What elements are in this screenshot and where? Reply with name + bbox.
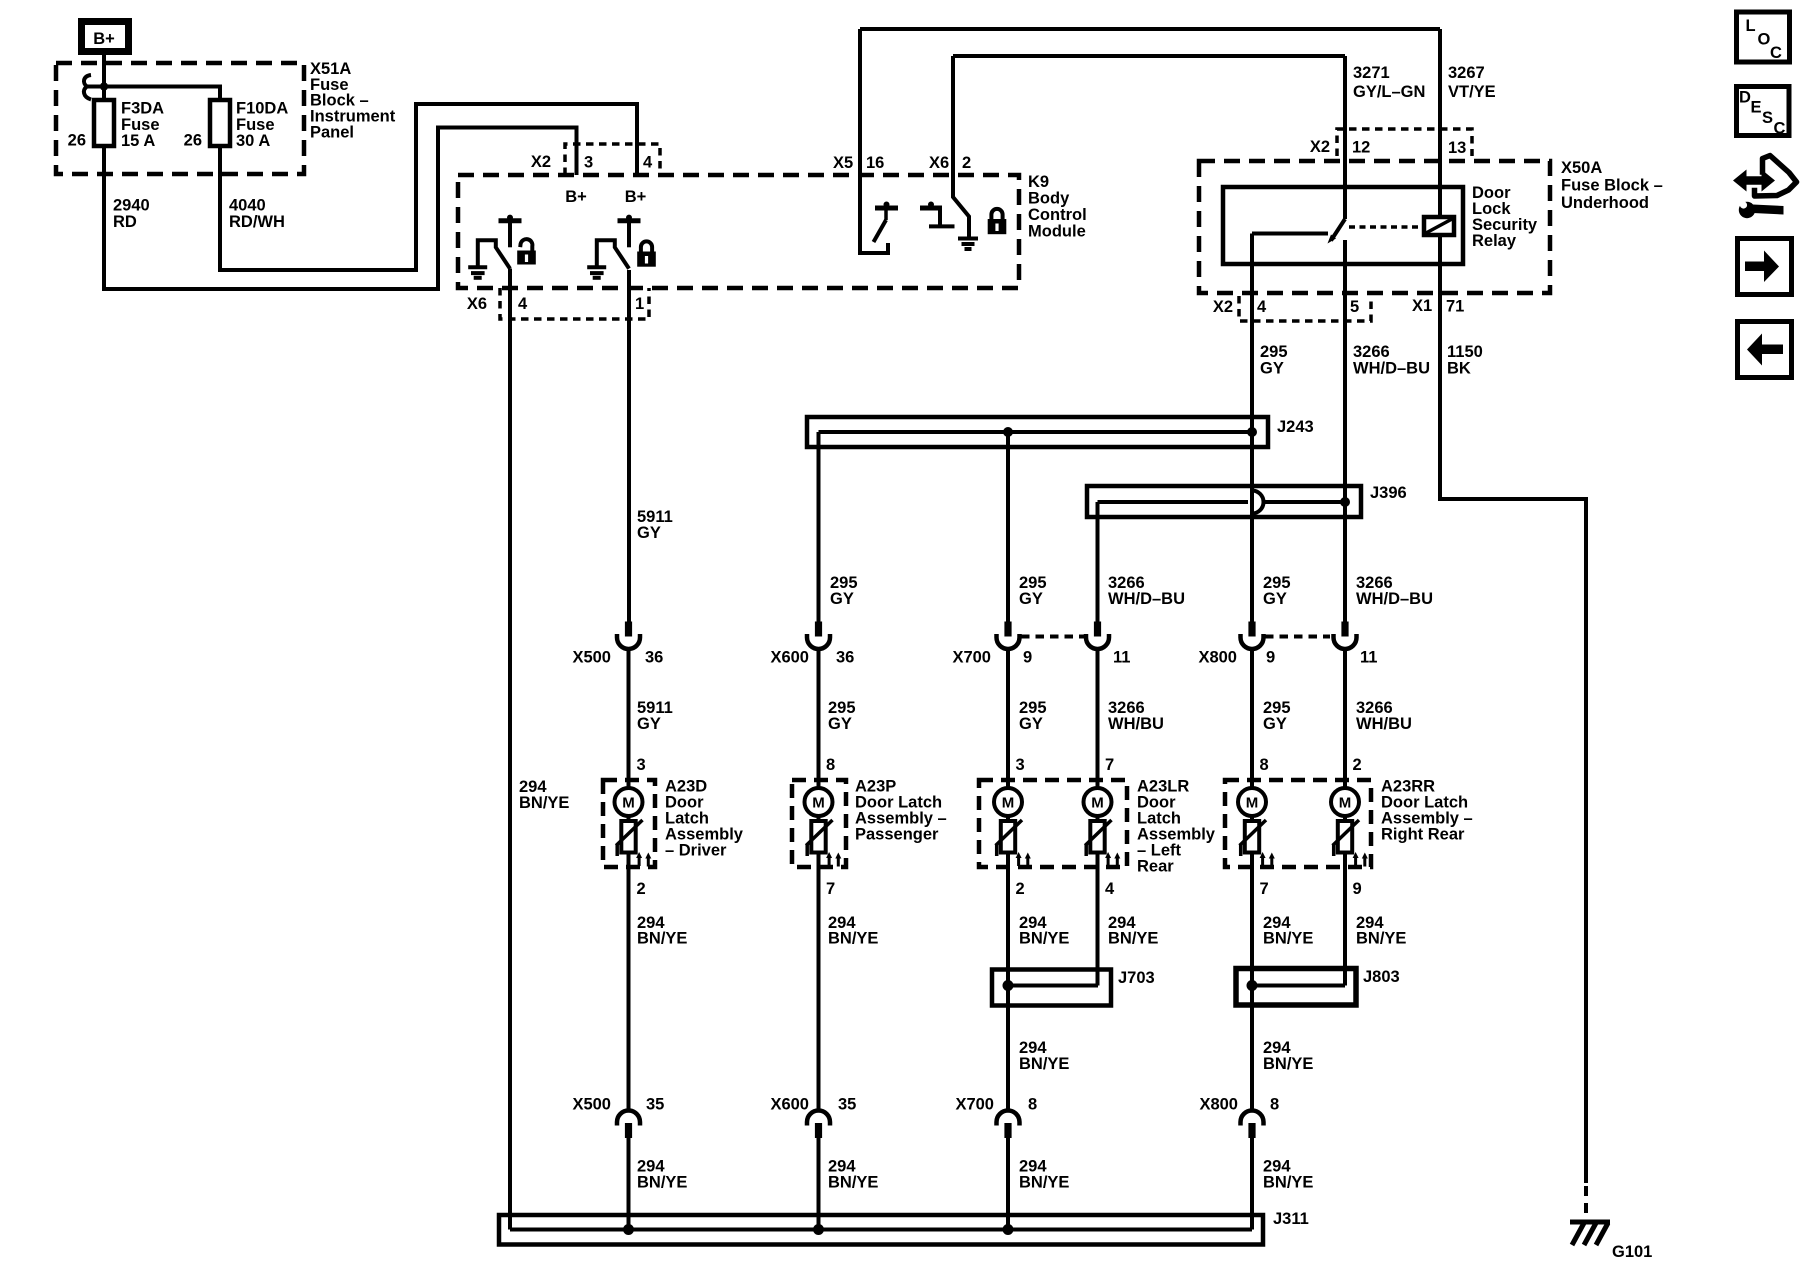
svg-text:Panel: Panel (310, 124, 354, 142)
svg-text:2940: 2940 (113, 197, 150, 215)
svg-text:F3DA: F3DA (121, 100, 164, 118)
svg-text:3: 3 (584, 154, 593, 172)
svg-text:BN/YE: BN/YE (1108, 930, 1158, 948)
svg-text:2: 2 (1353, 756, 1362, 774)
svg-text:8: 8 (1270, 1096, 1279, 1114)
svg-text:F10DA: F10DA (236, 100, 288, 118)
svg-text:– Driver: – Driver (665, 842, 727, 860)
svg-text:X500: X500 (572, 1096, 611, 1114)
svg-text:J311: J311 (1273, 1210, 1309, 1228)
svg-text:WH/D–BU: WH/D–BU (1356, 590, 1433, 608)
svg-text:C: C (1770, 44, 1782, 62)
svg-text:RD/WH: RD/WH (229, 213, 285, 231)
svg-text:1150: 1150 (1447, 343, 1483, 361)
svg-text:12: 12 (1352, 139, 1370, 157)
svg-text:BN/YE: BN/YE (519, 794, 569, 812)
svg-text:E: E (1751, 99, 1762, 117)
svg-text:X800: X800 (1198, 649, 1237, 667)
svg-text:RD: RD (113, 213, 137, 231)
svg-text:36: 36 (645, 649, 663, 667)
svg-text:295: 295 (1260, 343, 1288, 361)
svg-text:J243: J243 (1277, 418, 1314, 436)
svg-text:VT/YE: VT/YE (1448, 83, 1496, 101)
svg-text:X1: X1 (1412, 297, 1432, 315)
svg-text:X700: X700 (952, 649, 991, 667)
svg-text:BN/YE: BN/YE (1019, 1174, 1069, 1192)
svg-text:B+: B+ (93, 30, 115, 48)
svg-text:GY: GY (1263, 590, 1287, 608)
svg-text:Underhood: Underhood (1561, 194, 1649, 212)
svg-text:X600: X600 (770, 1096, 809, 1114)
svg-text:GY: GY (637, 715, 661, 733)
svg-text:7: 7 (1260, 880, 1269, 898)
svg-text:X2: X2 (1213, 298, 1233, 316)
svg-text:8: 8 (1260, 756, 1269, 774)
svg-text:WH/BU: WH/BU (1108, 715, 1164, 733)
svg-text:36: 36 (836, 649, 854, 667)
svg-text:BN/YE: BN/YE (1019, 930, 1069, 948)
svg-text:1: 1 (635, 295, 644, 313)
svg-text:G101: G101 (1612, 1243, 1652, 1261)
svg-text:9: 9 (1266, 649, 1275, 667)
svg-text:X6: X6 (929, 154, 949, 172)
svg-text:7: 7 (1105, 756, 1114, 774)
svg-text:BK: BK (1447, 360, 1471, 378)
svg-text:J396: J396 (1370, 484, 1407, 502)
svg-text:J703: J703 (1118, 969, 1155, 987)
svg-text:BN/YE: BN/YE (1263, 1055, 1313, 1073)
svg-text:3266: 3266 (1353, 343, 1390, 361)
svg-text:Rear: Rear (1137, 858, 1174, 876)
svg-text:GY: GY (637, 524, 661, 542)
svg-text:D: D (1739, 89, 1751, 107)
svg-text:B+: B+ (565, 188, 587, 206)
svg-text:4: 4 (1105, 880, 1115, 898)
svg-text:X700: X700 (955, 1096, 994, 1114)
svg-text:X600: X600 (770, 649, 809, 667)
svg-text:X500: X500 (572, 649, 611, 667)
svg-text:4: 4 (1257, 298, 1267, 316)
svg-text:J803: J803 (1363, 968, 1400, 986)
svg-text:2: 2 (1016, 880, 1025, 898)
svg-text:15 A: 15 A (121, 132, 155, 150)
svg-text:71: 71 (1446, 298, 1464, 316)
svg-text:BN/YE: BN/YE (828, 930, 878, 948)
svg-text:WH/BU: WH/BU (1356, 715, 1412, 733)
svg-text:2: 2 (962, 154, 971, 172)
svg-text:3267: 3267 (1448, 64, 1485, 82)
svg-text:35: 35 (838, 1096, 856, 1114)
svg-text:3271: 3271 (1353, 64, 1390, 82)
svg-text:30 A: 30 A (236, 132, 270, 150)
svg-text:8: 8 (826, 756, 835, 774)
svg-text:BN/YE: BN/YE (1263, 930, 1313, 948)
svg-text:X2: X2 (1310, 138, 1330, 156)
svg-text:9: 9 (1023, 649, 1032, 667)
svg-text:B+: B+ (625, 188, 647, 206)
svg-text:X800: X800 (1199, 1096, 1238, 1114)
svg-text:13: 13 (1448, 139, 1466, 157)
svg-text:Body: Body (1028, 190, 1070, 208)
svg-text:Passenger: Passenger (855, 826, 939, 844)
svg-text:C: C (1774, 120, 1786, 138)
svg-text:BN/YE: BN/YE (637, 930, 687, 948)
svg-text:11: 11 (1360, 649, 1377, 667)
svg-text:X2: X2 (531, 153, 551, 171)
svg-text:16: 16 (866, 154, 884, 172)
svg-text:2: 2 (637, 880, 646, 898)
svg-text:BN/YE: BN/YE (1019, 1055, 1069, 1073)
svg-text:X6: X6 (467, 295, 487, 313)
svg-text:O: O (1758, 31, 1771, 49)
svg-text:K9: K9 (1028, 173, 1049, 191)
svg-text:BN/YE: BN/YE (828, 1174, 878, 1192)
svg-text:GY: GY (1019, 590, 1043, 608)
svg-text:GY: GY (828, 715, 852, 733)
svg-text:X50A: X50A (1561, 159, 1602, 177)
svg-text:26: 26 (68, 132, 86, 150)
svg-text:Control: Control (1028, 206, 1087, 224)
svg-text:4: 4 (643, 154, 653, 172)
svg-text:Right Rear: Right Rear (1381, 826, 1465, 844)
svg-text:8: 8 (1028, 1096, 1037, 1114)
svg-text:9: 9 (1353, 880, 1362, 898)
svg-text:WH/D–BU: WH/D–BU (1108, 590, 1185, 608)
svg-text:S: S (1762, 109, 1773, 127)
svg-text:GY: GY (830, 590, 854, 608)
svg-text:GY: GY (1019, 715, 1043, 733)
svg-text:Relay: Relay (1472, 232, 1517, 250)
svg-text:4040: 4040 (229, 197, 266, 215)
svg-text:7: 7 (826, 880, 835, 898)
svg-text:Fuse Block –: Fuse Block – (1561, 177, 1663, 195)
svg-text:11: 11 (1113, 649, 1130, 667)
svg-text:3: 3 (1016, 756, 1025, 774)
svg-text:GY: GY (1263, 715, 1287, 733)
svg-text:3: 3 (637, 756, 646, 774)
svg-text:X5: X5 (833, 154, 853, 172)
svg-text:Module: Module (1028, 223, 1086, 241)
svg-text:WH/D–BU: WH/D–BU (1353, 360, 1430, 378)
svg-text:GY/L–GN: GY/L–GN (1353, 83, 1425, 101)
svg-text:BN/YE: BN/YE (637, 1174, 687, 1192)
svg-text:35: 35 (646, 1096, 664, 1114)
svg-text:BN/YE: BN/YE (1356, 930, 1406, 948)
svg-text:BN/YE: BN/YE (1263, 1174, 1313, 1192)
svg-text:4: 4 (518, 295, 528, 313)
svg-text:5: 5 (1350, 298, 1359, 316)
svg-text:GY: GY (1260, 360, 1284, 378)
svg-text:26: 26 (184, 132, 202, 150)
svg-text:L: L (1746, 17, 1756, 35)
